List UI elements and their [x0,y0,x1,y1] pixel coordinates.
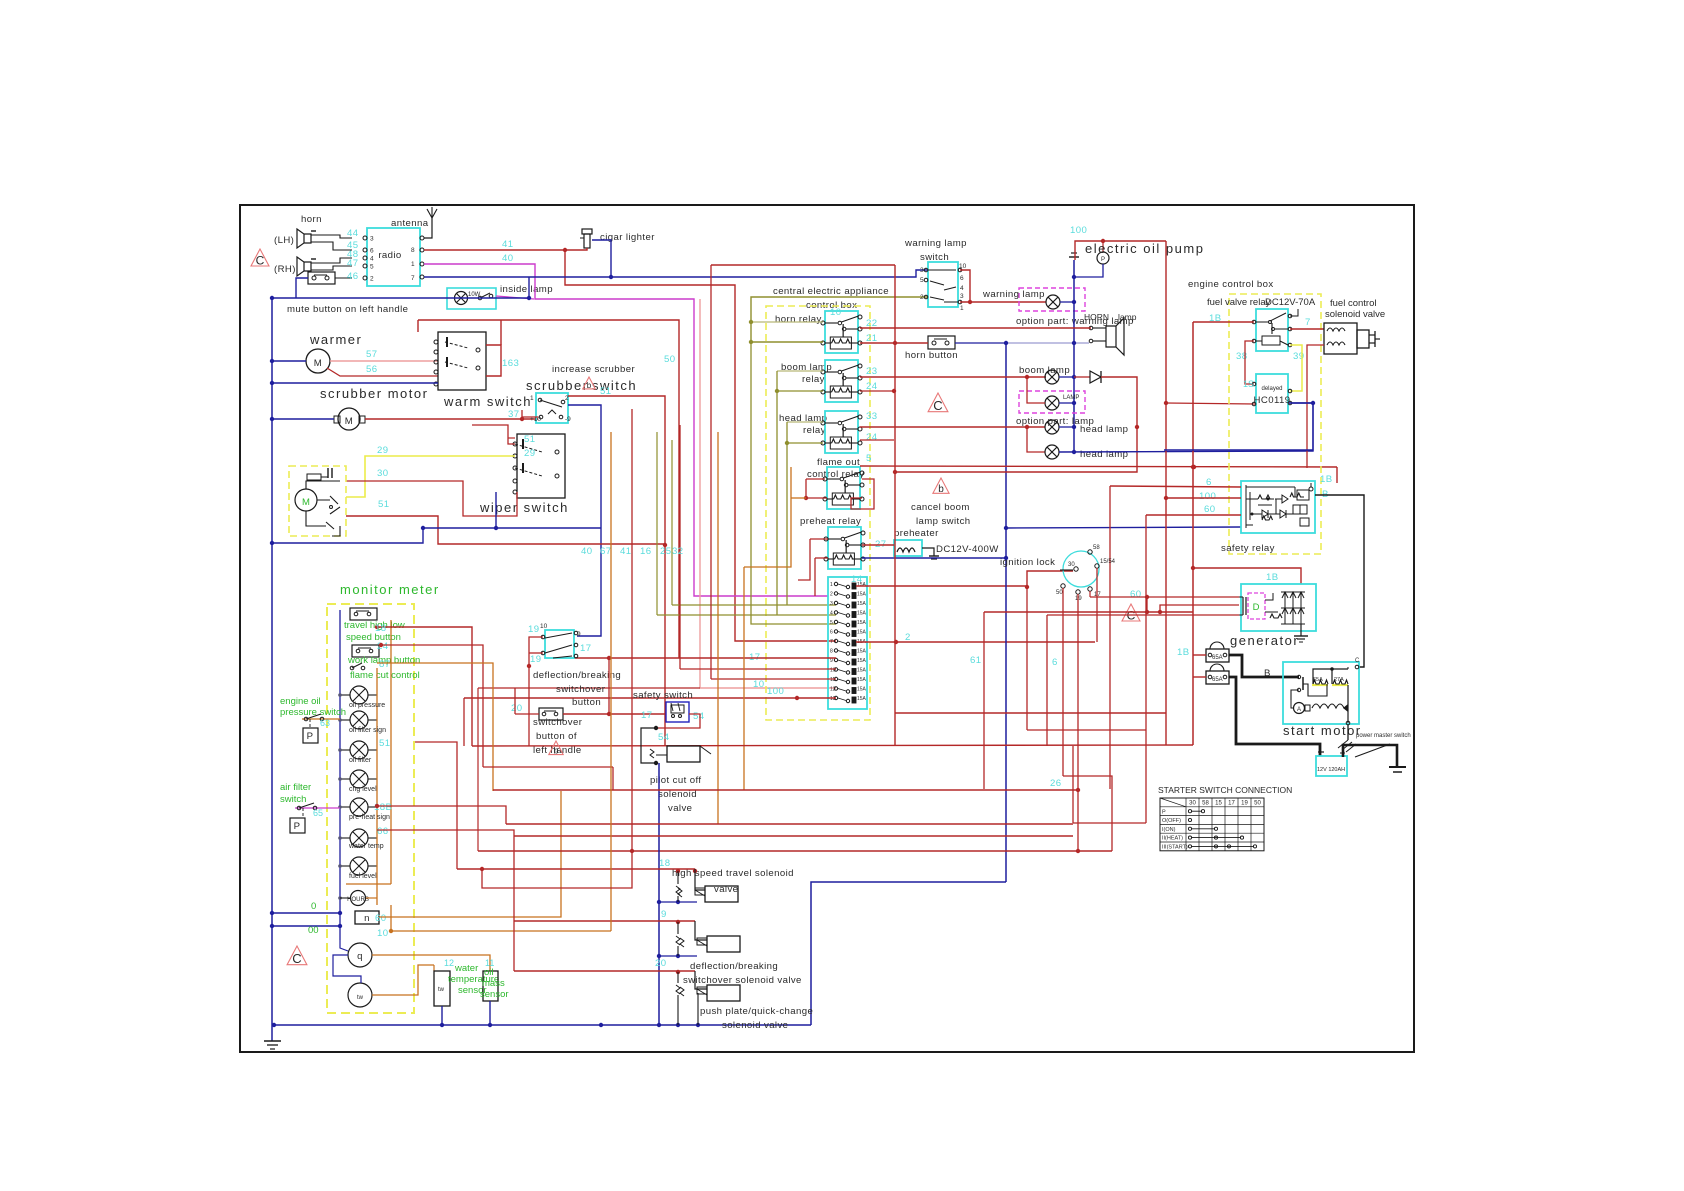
svg-text:C: C [256,254,265,268]
wire antenna [424,218,432,238]
vertical x984 [983,612,985,789]
svg-text:12: 12 [830,687,836,693]
svg-text:58: 58 [1093,545,1100,551]
svg-text:lamp: lamp [1118,312,1137,322]
wire trunk x711 from radio41 [710,265,712,679]
q gauge [348,943,372,967]
olive pin5 feed [751,342,836,624]
svg-text:54: 54 [658,732,670,743]
vertical x1146 [1145,515,1147,823]
1B vertical [1192,322,1194,745]
work lamp button [352,645,379,657]
top red rail [1075,241,1166,260]
wire 50 trunk from y320 [418,320,679,658]
start motor internal wires [1313,669,1348,684]
wire navy valve2 [659,955,697,957]
svg-text:100: 100 [767,686,784,697]
svg-text:III(START): III(START) [1162,845,1188,851]
svg-text:00: 00 [308,925,319,936]
svg-text:O(OFF): O(OFF) [1162,818,1181,824]
svg-text:87: 87 [379,659,390,670]
wire olive horn relay contact [751,321,823,323]
svg-text:51: 51 [378,499,389,510]
svg-text:water temp: water temp [348,843,384,850]
svg-text:47: 47 [347,258,358,269]
svg-text:8: 8 [411,247,415,254]
svg-text:switch: switch [280,794,306,805]
svg-text:65A: 65A [1212,677,1223,683]
svg-text:40: 40 [502,253,513,264]
svg-text:7: 7 [830,639,833,645]
svg-text:100: 100 [1199,491,1216,502]
wire horn RH- to radio pin5 [311,266,352,270]
wire 57 pink [330,360,438,362]
svg-text:fuel level: fuel level [349,873,377,880]
svg-text:0: 0 [311,901,316,912]
svg-text:C: C [292,951,301,966]
control box yellow dashed [766,306,870,720]
svg-text:warning lamp: warning lamp [904,238,967,249]
horn speaker RH [297,257,311,276]
generator ground [1300,624,1302,636]
svg-text:D: D [1253,602,1260,613]
wire mute navy loop [296,278,308,298]
svg-text:4: 4 [830,611,833,617]
wire 51 scrubber red [522,410,538,417]
row y730 [1027,729,1146,731]
svg-text:mute button on left handle: mute button on left handle [287,304,408,315]
wire 17 terminal link [1090,597,1147,612]
svg-text:(RH): (RH) [274,264,296,275]
deflection breaking switchover box [545,630,574,658]
svg-text:-9: -9 [565,416,571,423]
svg-text:9: 9 [661,909,667,920]
wire fuel valve lower red [1307,345,1324,468]
svg-text:3: 3 [830,601,833,607]
svg-text:horn: horn [301,214,322,225]
electric oil pump P1 [1097,252,1109,264]
svg-text:19: 19 [530,654,541,665]
svg-text:15A: 15A [857,649,867,655]
svg-text:17: 17 [1228,801,1235,807]
svg-text:1: 1 [960,305,964,312]
navy rows left monitor [272,912,340,914]
engine control box yellow dashed [1229,294,1321,554]
svg-text:19: 19 [1241,801,1248,807]
svg-text:deflection/breaking: deflection/breaking [533,670,621,681]
svg-text:1: 1 [830,582,833,588]
svg-text:15A: 15A [857,677,867,683]
wire 14 to ignition 30 [1027,571,1073,587]
svg-text:14: 14 [851,574,863,585]
olive bus from warning switch [751,297,928,342]
svg-text:boom lamp: boom lamp [1019,365,1070,376]
svg-text:electric oil pump: electric oil pump [1085,241,1204,256]
wire cigar lighter ground navy [592,240,611,277]
wire 29 yellow [346,456,515,497]
svg-text:oil: oil [484,967,494,978]
vertical x613 [612,767,614,790]
ignition lock SW1 [1063,551,1099,587]
cigar lighter [582,229,592,234]
svg-text:wiper switch: wiper switch [479,500,569,515]
svg-text:M: M [314,358,322,369]
wire mute to radio pin7 junction [528,277,530,298]
svg-text:fuel valve relay: fuel valve relay [1207,297,1271,308]
wire y403 row to delayed [1166,403,1255,404]
svg-text:15A: 15A [857,668,867,674]
wire cigar lighter feed [565,248,587,250]
wire 51 wiper top [508,437,515,439]
wire 10 to warning lamp [970,301,1046,303]
wire 19 down to row746 [528,666,530,746]
svg-text:chg level: chg level [349,786,377,793]
svg-text:57: 57 [366,349,377,360]
svg-text:51: 51 [379,738,390,749]
svg-text:4: 4 [370,256,374,263]
ground symbol bottom left [271,1025,273,1041]
wire 15/54 down [1096,568,1098,642]
svg-text:15A: 15A [857,620,867,626]
head lamp red vertical x1137 [1135,425,1139,429]
svg-text:15/54: 15/54 [1100,559,1116,565]
svg-text:DC12V-400W: DC12V-400W [936,544,999,555]
svg-text:6: 6 [1052,657,1058,668]
svg-text:1S: 1S [1243,379,1254,389]
vertical x1110 [1109,486,1111,789]
svg-text:1: 1 [411,261,415,268]
wire trunk x895 [894,265,896,746]
svg-text:24: 24 [377,641,389,652]
start motor M2 [1283,662,1359,724]
wire scrubber switch to trunk [568,405,601,636]
wire horn button navy to speaker [955,342,1006,344]
svg-text:ignition lock: ignition lock [1000,557,1055,568]
svg-text:10: 10 [540,623,548,630]
wire navy valve1 [659,901,697,903]
wire cigar trunk to connector pin7 [565,250,836,641]
red trunks x889 x894 [893,341,897,345]
svg-text:switch: switch [592,378,637,393]
svg-text:12: 12 [444,958,454,968]
svg-text:water: water [454,963,478,974]
svg-text:engine oil: engine oil [280,696,321,707]
svg-text:19: 19 [1075,596,1082,602]
svg-text:scrubber: scrubber [526,378,589,393]
svg-text:(LH): (LH) [274,235,294,246]
svg-text:n: n [364,913,370,924]
wire 19 down [1077,594,1079,851]
svg-text:monitor meter: monitor meter [340,582,440,597]
safety relay internals [1245,485,1247,528]
wire 1B to fuse1 [1193,654,1206,656]
svg-text:15A: 15A [857,611,867,617]
svg-text:40: 40 [581,546,592,557]
svg-text:1B: 1B [1266,572,1279,583]
svg-text:24: 24 [866,432,878,443]
svg-text:warmer: warmer [309,332,362,347]
preheat relay left wires [810,538,828,540]
wire pump navy [1074,264,1103,277]
warmer motor M [306,349,330,373]
svg-text:25: 25 [660,546,671,557]
svg-text:head lamp: head lamp [1080,424,1128,435]
warning triangle b [933,478,949,493]
wire 1B row to fuel valve relay [1193,321,1254,323]
svg-text:3: 3 [370,236,374,243]
svg-text:antenna: antenna [391,218,429,229]
svg-text:3: 3 [920,267,924,274]
blue trunk x1074 [1073,260,1075,452]
svg-text:switchover solenoid valve: switchover solenoid valve [683,975,802,986]
svg-text:16: 16 [640,546,651,557]
svg-text:C: C [933,398,942,413]
svg-text:pre-heat sign: pre-heat sign [349,814,390,821]
svg-text:horn button: horn button [905,350,958,361]
svg-text:30: 30 [1068,562,1075,568]
row y679 [711,678,836,680]
svg-text:5: 5 [866,453,872,464]
svg-text:delayed: delayed [1261,386,1282,392]
svg-text:oil filter: oil filter [349,757,372,764]
svg-text:HC0119: HC0119 [1254,395,1291,406]
svg-text:17: 17 [580,643,591,654]
generator internals [1248,593,1265,619]
battery 12V 120AH [1316,756,1347,776]
svg-text:20: 20 [655,958,666,969]
orange trunk x731 60 [717,432,719,512]
delayed HC0119 module [1256,374,1288,413]
svg-text:38: 38 [1236,351,1247,362]
wire 51 from scrubber switch right [568,396,665,746]
flame cut control switch [350,666,354,670]
svg-text:2: 2 [370,276,374,283]
svg-text:15: 15 [1215,801,1222,807]
row y823 [1073,822,1146,824]
wire warm switch up [500,320,502,345]
wire flame relay right loop [851,479,874,509]
svg-text:relay: relay [802,374,825,385]
svg-text:tw: tw [357,995,364,1001]
svg-text:cigar lighter: cigar lighter [600,232,655,243]
wiper motor assembly [289,466,346,536]
svg-text:3: 3 [960,293,964,300]
start motor ground / power master switch [1347,725,1349,740]
svg-text:warning lamp: warning lamp [982,289,1045,300]
inside lamp [447,288,496,309]
outer border frame [240,205,1414,1052]
svg-text:deflection/breaking: deflection/breaking [690,961,778,972]
svg-text:increase scrubber: increase scrubber [552,364,635,375]
row y713 [895,712,1166,714]
svg-text:tw: tw [438,987,445,993]
svg-text:A: A [1297,707,1301,713]
wire horn LH- to radio pin6 [311,242,352,250]
HORN lamp speaker [1106,318,1124,355]
svg-text:67: 67 [600,546,611,557]
svg-text:b: b [587,381,592,390]
olive head relay feeds [787,421,823,423]
svg-text:41: 41 [620,546,631,557]
svg-text:58: 58 [1202,801,1209,807]
svg-text:5: 5 [830,620,833,626]
wire 50 down [1062,588,1064,776]
wire orange flame relay loop [744,467,791,567]
svg-text:head lamp: head lamp [1080,449,1128,460]
wire 40 radio pin1 magenta [424,264,828,596]
svg-text:scrubber motor: scrubber motor [320,386,428,401]
svg-text:b: b [553,745,558,755]
wire 163 warm switch right [486,345,501,376]
svg-text:5: 5 [370,264,374,271]
relay preheat K5 [828,527,861,569]
svg-text:100: 100 [1070,225,1087,236]
row y824 [506,823,1073,825]
svg-text:65A: 65A [1212,655,1223,661]
wiper switch [517,434,565,498]
svg-text:switchover: switchover [533,717,583,728]
svg-text:60: 60 [1130,589,1141,600]
svg-text:19: 19 [528,624,539,635]
scrubber motor M [338,408,360,430]
svg-text:lamp switch: lamp switch [916,516,971,527]
svg-text:30: 30 [377,468,388,479]
svg-text:button of: button of [536,731,577,742]
svg-text:6: 6 [960,275,964,282]
svg-text:P: P [1162,809,1166,815]
svg-text:mass: mass [482,978,505,989]
warning triangle b [583,377,596,389]
svg-text:warm switch: warm switch [443,394,532,409]
row y790 [493,789,1078,791]
navy delayed out row y450 [1289,402,1313,404]
wire 17 out of box [573,657,575,659]
preheater ground [922,548,934,556]
svg-text:M: M [302,497,310,508]
warm switch [438,332,486,390]
olive boom relay feeds [777,370,823,372]
vertical x1073 [1072,746,1074,823]
svg-text:oil filter sign: oil filter sign [349,727,386,734]
row y605 generator [1160,605,1239,612]
wire navy wiper bottom [496,492,601,528]
orange x718 down [717,512,719,824]
wire 20 feed [515,713,539,715]
svg-text:8: 8 [830,649,833,655]
diode D1 [1074,376,1090,378]
svg-text:30: 30 [1189,801,1196,807]
row y612 [984,611,1193,613]
vertical x478 [477,688,479,851]
wire 1B to fuse2 [1193,676,1206,678]
n box [355,911,379,924]
svg-text:safety relay: safety relay [1221,543,1275,554]
svg-text:65: 65 [313,808,323,818]
row 18 monitor to mesh [377,627,472,746]
orange vertical lamp feeds [376,668,378,905]
warning lamp option box [1019,288,1085,311]
preheat relay navy out [862,557,1006,559]
svg-text:P: P [294,821,301,832]
svg-text:DC12V-70A: DC12V-70A [1265,297,1316,308]
warning triangle C [1122,604,1140,621]
pilot cut off solenoid valve [641,728,656,763]
svg-text:air filter: air filter [280,782,311,793]
svg-text:P: P [1101,257,1105,263]
warning triangle C [287,946,307,965]
row y615 generator [1047,614,1239,616]
svg-text:HOURS: HOURS [347,897,369,903]
svg-text:17: 17 [641,710,652,721]
svg-text:valve: valve [668,803,692,814]
svg-text:29: 29 [524,448,535,459]
warning triangle C [928,393,948,412]
valve push plate quick change Y3 [707,985,740,1001]
wires 19 into box [529,637,543,666]
vertical x1027 [1026,587,1028,730]
wire navy y528 to safety relay [1006,527,1241,528]
row y669 [680,668,836,670]
relay head lamp K3 [825,411,858,453]
svg-text:4: 4 [960,285,964,292]
wire boom to option lamp [1027,377,1045,403]
row y597 generator [1147,596,1239,598]
wire trunk x680 [679,425,681,669]
svg-text:50: 50 [1254,801,1261,807]
svg-text:b: b [938,484,944,495]
wire 54 [656,714,700,728]
wire wiper 51 in [472,425,515,444]
valve deflection breaking Y2 [707,936,740,952]
svg-text:1B: 1B [1320,474,1333,485]
wire olive x657 [656,432,658,615]
svg-text:STARTER SWITCH CONNECTION: STARTER SWITCH CONNECTION [1158,785,1292,795]
navy pilot valve down [658,763,660,1025]
x1166 vertical continues [1165,241,1167,745]
svg-text:LAMP: LAMP [1063,395,1079,401]
vertical x609 [608,658,610,714]
valve high speed travel Y1 [705,886,738,902]
svg-text:18: 18 [659,858,670,869]
wire radio pin7 navy [424,270,928,277]
svg-text:solenoid valve: solenoid valve [1325,309,1385,320]
svg-text:horn relay: horn relay [775,314,822,325]
svg-text:9: 9 [830,658,833,664]
svg-text:54: 54 [693,711,705,722]
warning triangle b [549,741,563,755]
svg-text:66: 66 [377,826,388,837]
svg-text:26: 26 [1050,778,1061,789]
wire horn LH+ to radio pin3 [311,235,352,238]
svg-text:button: button [572,697,601,708]
row y851 [478,850,1112,852]
relay flame cut K4 [827,467,860,509]
svg-text:10: 10 [753,679,764,690]
svg-text:63: 63 [320,718,330,728]
svg-text:18: 18 [375,623,386,634]
svg-text:flame cut control: flame cut control [350,670,420,681]
svg-text:inside lamp: inside lamp [500,284,553,295]
row y776 [1063,776,1112,851]
oil mass sensor [483,971,498,1001]
svg-text:1B: 1B [1177,647,1190,658]
svg-text:6: 6 [830,630,833,636]
relay boom lamp K2 [825,360,858,402]
wire olive x672 [671,440,673,605]
svg-text:7: 7 [411,275,415,282]
radio U1 [367,228,420,286]
horn button [928,336,955,349]
